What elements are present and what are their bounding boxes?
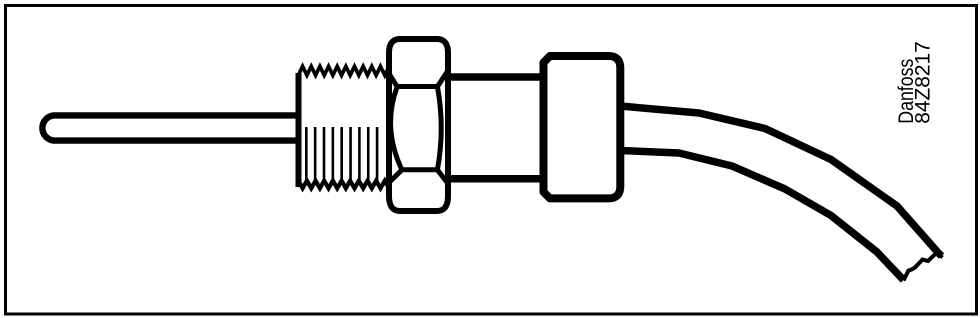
hex nut top face edge	[388, 72, 447, 87]
thread hatch lines	[306, 127, 377, 184]
threaded fitting top thread crests	[298, 62, 389, 81]
sensor body	[544, 56, 621, 198]
svg-text:84Z8217: 84Z8217	[912, 41, 935, 124]
threaded fitting bottom thread crests	[298, 175, 389, 192]
hex nut middle face left arc	[391, 87, 402, 170]
hex nut bottom face edge	[389, 170, 448, 183]
spacer cylinder bottom line	[448, 175, 545, 183]
hex nut outline	[389, 39, 448, 211]
cable bottom line	[620, 151, 904, 281]
hex nut middle face right arc	[437, 87, 441, 170]
cable break zigzag	[904, 253, 943, 281]
probe rod	[42, 115, 298, 140]
spacer cylinder top line	[448, 73, 545, 81]
threaded fitting left edge	[296, 73, 302, 187]
cable top line	[620, 106, 942, 256]
